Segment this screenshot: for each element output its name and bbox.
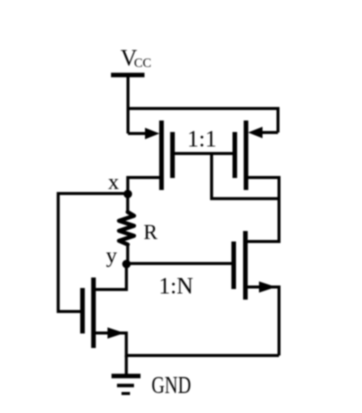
svg-text:CC: CC xyxy=(134,55,151,70)
svg-text:x: x xyxy=(108,169,119,194)
svg-text:1:N: 1:N xyxy=(159,274,194,299)
svg-text:1:1: 1:1 xyxy=(187,127,216,152)
svg-text:y: y xyxy=(106,243,117,268)
svg-text:R: R xyxy=(144,220,158,244)
svg-text:GND: GND xyxy=(152,373,192,399)
